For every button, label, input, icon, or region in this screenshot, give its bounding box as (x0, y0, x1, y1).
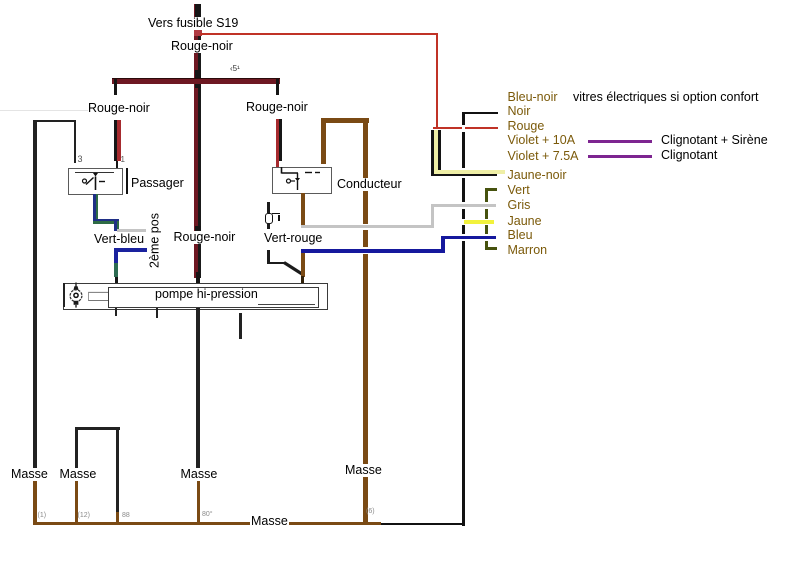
label: Masse 5 on bus (250, 515, 289, 528)
wire: jaune-noir horizontal pale yellow core (434, 170, 506, 174)
wire: black tick at left end of bus (114, 79, 117, 95)
wire: inverted-U right leg brown tail (116, 512, 119, 524)
label: legend Vert (508, 184, 530, 197)
label: bus pin (1) (38, 512, 47, 520)
symbol: olive bracket grouping Vert..Marron (485, 188, 489, 251)
wire: purple line Clignotant + Sirene (588, 140, 652, 143)
wire: thin red horizontal into legend Rouge (433, 127, 498, 129)
wire: pump bottom tick 1 (115, 308, 117, 317)
wire: jaune-noir vertical black right edge (438, 130, 441, 174)
wire: center rouge-noir vertical trunk (maroon core) (194, 4, 198, 278)
label: legend Gris (508, 199, 531, 212)
wire: black tick chain below Conducteur left pin (267, 202, 270, 213)
wire: black bottom link from bus to right black vertical (381, 523, 465, 526)
wire: internal top link inside Passager box (75, 172, 114, 173)
wire: black drop into Passager box top (74, 120, 77, 163)
label: (5) bus annotation (230, 65, 240, 73)
wire: black segment of trunk above center label (195, 226, 201, 231)
wire: long brown vertical down to Masse (text overlays it) (363, 118, 369, 525)
wire: inverted-U black wire (2nd Masse) top (75, 427, 120, 430)
wire: brown drop from blue wire into pump (301, 251, 305, 277)
wire: inverted-U left leg black (75, 427, 79, 470)
wire: gray vertical jog (431, 204, 434, 228)
label: legend Rouge (508, 120, 545, 133)
wire: right branch rouge-noir two-tone black part (279, 119, 282, 161)
wire: pump bottom stub 4 (239, 313, 242, 339)
wire: black diagonal to brown pump feed (282, 258, 306, 278)
label: legend Noir (508, 105, 531, 118)
wire: inverted-U right leg black (116, 427, 119, 514)
wire: black segment at top of trunk (195, 4, 201, 20)
label: Clignotant + Sirene (661, 134, 768, 147)
wire: left branch rouge-noir two-tone black part (114, 120, 117, 161)
label: bus pin 80 (202, 511, 213, 519)
label: Vert-rouge (overlays wire) (263, 232, 323, 245)
node: red junction blob on trunk (194, 28, 202, 36)
label: Masse 1 (10, 468, 49, 481)
label: Rouge-noir top (170, 40, 234, 53)
symbol: thick left edge of housing (63, 283, 65, 307)
label: Masse 3 (180, 468, 219, 481)
wire: black vertical right side (Noir) (462, 112, 465, 526)
wire: thick black pump ground drop (3rd Masse) (196, 308, 200, 470)
component: pompe hi-pression inner box (108, 287, 319, 308)
label: pin 1 Passager (121, 156, 125, 164)
wire: vert-bleu horizontal jog (blue half) (93, 219, 119, 222)
component: pompe hi-pression outer housing (63, 283, 328, 310)
wire: black L vertical (vert-rouge run) (267, 250, 270, 265)
wire: blue vertical jog (441, 236, 445, 253)
wire: black tick of trunk entering pump box (196, 272, 200, 285)
crossing gaps (white jumps) on vertical wires (462, 125, 466, 132)
label: Conducteur (overlays brown wire) (336, 178, 403, 191)
symbol: underline inside pump box (258, 304, 315, 305)
label: bus pin (6) (366, 508, 375, 516)
label: pompe hi-pression (155, 288, 258, 301)
label: Clignotant (661, 149, 717, 162)
label: Rouge-noir right branch (246, 101, 308, 114)
label: Rouge-noir center (overlays trunk) (173, 231, 237, 244)
component: Passager window-switch box (68, 168, 123, 195)
wire: vert-bleu vertical below Passager (blue half) (93, 194, 96, 222)
wire: black top horizontal to Passager (33, 120, 76, 123)
label: legend Jaune (508, 215, 542, 228)
label: legend Marron (508, 244, 548, 257)
label: legend Bleu (508, 229, 533, 242)
wire: purple line Clignotant (588, 155, 652, 158)
wire: black top stub to Noir label (462, 112, 498, 115)
wire: black tick into pump from brown (301, 276, 304, 284)
wire: yellow jumper to legend Jaune (464, 220, 495, 223)
wire: brown hook left vertical (from Conducteur top right) (321, 118, 327, 164)
label: legend Violet + 7.5A (508, 150, 579, 163)
wire: vert-bleu vertical below Passager (green half) (96, 194, 99, 222)
wire: brown hook top horizontal (321, 118, 369, 123)
label: Masse 2 (59, 468, 98, 481)
label: vitres electriques note (573, 91, 759, 104)
wire: jaune-noir vertical black left edge (431, 130, 434, 177)
label: Vert-bleu (94, 233, 144, 246)
wire: black tick into pump from blue wire (115, 277, 118, 285)
label: bus pin (12) (78, 512, 90, 520)
wire: brown drop from Conducteur bottom to gray wire (301, 193, 305, 228)
wire: long blue horizontal (from vert-rouge node) (301, 249, 445, 253)
label: pin 3 Passager (78, 155, 83, 163)
wire: jaune-noir horizontal black bottom edge (431, 174, 498, 177)
faint scan streak left of Passager drop (0, 110, 88, 111)
wire: black tick below capsule (267, 223, 270, 229)
label: 2eme pos (rotated) (149, 207, 162, 273)
label: legend Bleu-noir (508, 91, 558, 104)
wire: blue horizontal to legend Bleu (441, 236, 496, 240)
wire: vert-bleu horizontal jog (green half) (93, 221, 119, 224)
symbol: bracket bar right of Passager box (126, 168, 129, 194)
wire: gray horizontal to legend Gris (431, 204, 497, 207)
label: bus pin 88 (122, 512, 130, 520)
wire: black tick at right end of bus (276, 79, 279, 95)
symbol: Conducteur switch contact details (272, 166, 334, 194)
wire: black entry tick into Passager box (116, 161, 119, 174)
wire: pump bottom tick 2 (156, 308, 158, 319)
wire: rouge-noir horizontal bus (112, 78, 280, 84)
label: Vers fusible S19 (147, 17, 239, 30)
wire: thin red vertical on right (436, 33, 439, 129)
symbol: pump motor circle with connectors (64, 280, 112, 310)
wire: brown lower part of 1st Masse drop (33, 470, 37, 524)
wire: center trunk black right stripe (198, 4, 200, 278)
label: Masse 4 (344, 464, 383, 477)
wire: black L horizontal (267, 262, 286, 265)
component: Conducteur window-switch box (272, 167, 332, 195)
wire: blue stub (2eme pos terminal) (115, 248, 147, 252)
wire: brown ground bus (33, 522, 381, 526)
symbol: Passager switch contact details (67, 167, 129, 195)
wire: right branch rouge-noir two-tone red part (276, 119, 280, 167)
wire: jaune-noir vertical pale yellow core (434, 130, 439, 174)
label: legend Jaune-noir (508, 169, 567, 182)
wire: black vertical down to first Masse (33, 120, 37, 472)
wire: black segment of trunk at bus junction (195, 70, 201, 88)
wire: blue vertical down to pump (navy part) (114, 248, 119, 263)
symbol: contact mark right of capsule (272, 213, 280, 214)
wire: blue vertical down to pump (green part) (114, 263, 119, 277)
wire: gray horizontal from brown drop (301, 225, 434, 228)
wire: brown lower part of 3rd Masse drop (197, 470, 201, 524)
wire: vert-bleu short vertical to gray stub (114, 221, 117, 231)
wire: gray stub (2eme pos terminal) (117, 229, 147, 232)
wire: inverted-U left leg brown to bus (75, 470, 79, 524)
label: legend Violet + 10A (508, 134, 576, 147)
wire: left branch rouge-noir two-tone red part (117, 120, 121, 161)
label: Rouge-noir left branch (88, 102, 150, 115)
label: Passager (131, 177, 184, 190)
component: small fuse capsule on Vert-rouge wire (265, 213, 272, 225)
wire: thin red feed from trunk to right side, horizontal top (200, 33, 438, 35)
